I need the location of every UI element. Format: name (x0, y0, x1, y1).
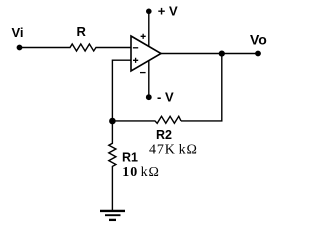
svg-text:R2: R2 (156, 128, 172, 142)
svg-text:Vo: Vo (250, 31, 267, 47)
svg-text:+ V: + V (158, 4, 178, 19)
svg-text:R1: R1 (122, 150, 138, 164)
svg-text:10kΩ: 10kΩ (122, 165, 160, 180)
svg-text:- V: - V (157, 90, 174, 105)
svg-text:Vi: Vi (12, 25, 24, 40)
svg-text:R: R (77, 24, 87, 39)
svg-text:47KkΩ: 47KkΩ (149, 142, 198, 157)
